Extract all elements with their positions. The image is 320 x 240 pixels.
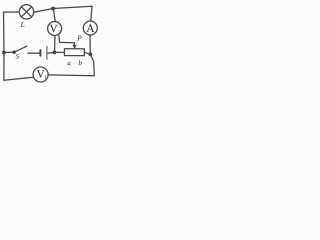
wire bottom right horizontal <box>48 74 94 77</box>
wire switch to battery <box>28 52 40 54</box>
lamp L cross stroke 1 <box>21 7 31 17</box>
svg-text:b: b <box>78 59 82 67</box>
battery long thin plate <box>46 46 48 59</box>
wire node down to bottom-right corner <box>90 54 94 75</box>
wire ammeter down to node b <box>89 35 91 54</box>
wire top-left horizontal from corner to lamp <box>4 11 20 13</box>
svg-text:A: A <box>86 23 95 35</box>
node junction dot top <box>51 7 55 11</box>
wire V2 bottom lead <box>54 36 57 53</box>
wiper arrow stem <box>73 43 75 48</box>
battery short thick plate <box>39 50 41 56</box>
wire mid node to rheostat <box>54 51 64 53</box>
wire node to voltmeter V2 top <box>53 9 55 22</box>
svg-text:V: V <box>50 23 58 35</box>
rheostat body <box>64 49 84 56</box>
wiper wire from V2 to arrow <box>59 36 74 43</box>
ammeter A <box>83 21 97 35</box>
svg-text:V: V <box>37 69 45 81</box>
voltmeter V1 <box>33 67 48 82</box>
wire rheostat to right node <box>84 52 90 54</box>
svg-text:P: P <box>76 33 82 42</box>
wiper arrowhead <box>73 45 76 49</box>
svg-text:S: S <box>16 53 20 60</box>
wire bottom left horizontal <box>4 77 33 80</box>
node junction dot right <box>88 52 92 56</box>
switch S pivot dot <box>13 51 16 54</box>
node junction dot left <box>2 51 6 55</box>
wire lamp to node <box>34 9 53 13</box>
wire battery to mid node <box>48 51 55 54</box>
voltmeter V2 <box>48 22 62 36</box>
wire node to top-right corner and down to ammeter <box>53 6 92 21</box>
svg-text:a: a <box>67 59 71 67</box>
node junction dot mid <box>53 51 57 55</box>
svg-text:L: L <box>20 20 25 29</box>
lamp L circle <box>19 5 33 19</box>
lamp L cross stroke 2 <box>21 7 31 17</box>
switch S blade <box>14 46 27 52</box>
wire left vertical side <box>3 12 6 80</box>
wire left node to switch <box>4 51 14 53</box>
